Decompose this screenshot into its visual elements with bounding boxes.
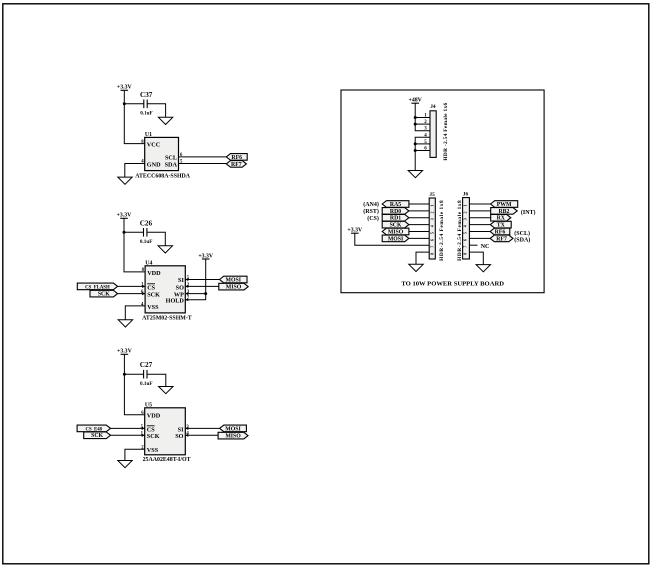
svg-text:VDD: VDD — [147, 270, 161, 277]
svg-text:RX: RX — [497, 216, 506, 222]
wire J6 pin 5 to RF6 — [469, 231, 490, 233]
wire C26 to ground — [147, 232, 165, 246]
wire J6 pin 4 to TX — [469, 224, 490, 226]
svg-text:CS: CS — [147, 284, 155, 291]
flag RA5 (J5) — [382, 201, 409, 208]
svg-text:C26: C26 — [140, 219, 153, 227]
wire J4 pin 5 stub — [415, 143, 430, 145]
wire SDA to RF7 — [179, 163, 227, 165]
flag MISO (U4) — [219, 283, 248, 290]
flag RF7 — [226, 161, 246, 168]
junction node (J4 pin 2) — [414, 123, 417, 126]
svg-text:VDD: VDD — [147, 413, 161, 420]
flag RF6 — [226, 154, 247, 161]
svg-text:SCK: SCK — [91, 433, 103, 439]
svg-text:8: 8 — [462, 253, 467, 255]
flag MOSI (U5) — [220, 425, 247, 432]
svg-text:(SCL): (SCL) — [514, 230, 530, 237]
junction node (J4 pin 1) — [414, 116, 417, 119]
wire J5 pin 3 to RD1 — [409, 217, 429, 219]
svg-text:0.1uF: 0.1uF — [140, 111, 153, 117]
svg-text:(AN4): (AN4) — [363, 201, 379, 208]
svg-text:ATECC608A-SSHDA: ATECC608A-SSHDA — [135, 174, 191, 180]
svg-text:5: 5 — [430, 232, 435, 234]
svg-text:(INT): (INT) — [521, 209, 536, 216]
svg-text:3: 3 — [462, 218, 467, 220]
wire J6 pin 2 to RB2 — [469, 210, 490, 212]
svg-text:2: 2 — [430, 212, 435, 214]
connector J4 body — [430, 111, 436, 158]
ground (C27) — [159, 387, 173, 394]
svg-text:RD1: RD1 — [390, 216, 401, 222]
wire SI to MOSI — [185, 427, 219, 429]
svg-text:1: 1 — [430, 205, 435, 207]
flag RD1 (J5) — [382, 214, 409, 221]
wire junction to C37 — [124, 103, 144, 105]
chip U4 body — [145, 266, 185, 313]
svg-text:PWM: PWM — [497, 202, 512, 208]
svg-text:8: 8 — [141, 140, 144, 145]
flag RD0 (J5) — [382, 208, 409, 215]
svg-text:MOSI: MOSI — [388, 236, 404, 242]
svg-text:SCK: SCK — [98, 292, 110, 298]
wire junction to C27 — [124, 373, 143, 375]
flag RF6 (J6) — [490, 228, 510, 235]
svg-text:SCK: SCK — [147, 292, 160, 299]
flag RF7 (J6) — [490, 235, 513, 242]
svg-text:J4: J4 — [430, 104, 436, 110]
ground (J5) — [409, 264, 423, 271]
wire J4 pin 2 stub — [415, 123, 430, 125]
wire SCK to U4 SCK — [118, 293, 146, 295]
power supply interface box — [341, 90, 544, 293]
svg-text:2: 2 — [462, 212, 467, 214]
flag CS_FLASH — [77, 283, 117, 290]
svg-text:8: 8 — [430, 253, 435, 255]
wire J4 pin 4 rail to ground — [415, 137, 430, 170]
wire J6 pin 7 NC stub — [469, 244, 477, 246]
wire J5 pin 1 to RA5 — [409, 203, 429, 205]
flag CS_E48 — [77, 425, 110, 432]
wire SCL to RF6 — [179, 156, 227, 158]
svg-text:RF6: RF6 — [231, 155, 242, 161]
capacitor C27 0.1uF — [143, 370, 145, 379]
svg-text:3: 3 — [430, 218, 435, 220]
connector J5 body — [429, 198, 435, 259]
svg-text:MISO: MISO — [388, 229, 404, 235]
svg-text:(RST): (RST) — [363, 208, 379, 215]
ground (U4 VSS) — [118, 320, 132, 327]
wire +3.3V to U4 VDD pin 8 — [124, 218, 145, 272]
wire junction to C26 — [124, 231, 144, 233]
wire U4 VSS to ground — [125, 306, 145, 320]
chip U5 body — [145, 408, 186, 455]
flag SCK (U4) — [90, 290, 118, 297]
connector J6 body — [463, 198, 470, 259]
svg-text:4: 4 — [462, 225, 467, 227]
flag TX (J6) — [490, 221, 511, 228]
svg-text:MISO: MISO — [225, 434, 241, 440]
wire WP stub — [185, 293, 205, 295]
svg-text:6: 6 — [141, 411, 144, 416]
svg-text:SO: SO — [176, 284, 184, 291]
junction node (WP tap) — [204, 292, 207, 295]
svg-text:AT25M02-SSHM-T: AT25M02-SSHM-T — [142, 315, 192, 321]
wire U5 VSS to ground — [125, 449, 145, 460]
wire +3.3V to J5 pin 7 — [355, 233, 429, 245]
svg-text:C27: C27 — [140, 361, 153, 369]
svg-text:0.1uF: 0.1uF — [140, 239, 153, 245]
ground (U5 VSS) — [118, 461, 132, 468]
svg-text:HDR-2.54 Female 1x8: HDR-2.54 Female 1x8 — [457, 200, 463, 261]
flag RB2 (J6) — [491, 208, 518, 215]
wire CS_FLASH to U4 CS — [118, 285, 146, 287]
svg-text:NC: NC — [481, 243, 490, 250]
flag MOSI (U4) — [220, 276, 248, 283]
svg-text:8: 8 — [142, 268, 145, 273]
svg-text:2: 2 — [141, 446, 144, 451]
svg-text:5: 5 — [462, 232, 467, 234]
junction node (C26 tap) — [123, 231, 126, 234]
svg-text:(CS): (CS) — [367, 215, 379, 222]
wire CS_E48 to U5 CS — [111, 427, 145, 429]
wire SCK to U5 SCK — [111, 434, 145, 436]
wire SI to MOSI — [185, 279, 219, 281]
svg-text:TX: TX — [497, 223, 506, 229]
flag SCK (U5) — [84, 432, 111, 439]
flag MISO (J5) — [382, 228, 409, 235]
svg-text:C37: C37 — [140, 91, 153, 99]
svg-text:J6: J6 — [463, 191, 469, 197]
svg-text:MISO: MISO — [226, 285, 242, 291]
wire J4 pin 6 stub — [415, 150, 430, 152]
wire J5 pin 6 to MOSI — [409, 237, 429, 239]
junction node (C27 tap) — [123, 373, 126, 376]
svg-text:HDR-2.54 Female 1x8: HDR-2.54 Female 1x8 — [439, 200, 445, 261]
svg-text:(SDA): (SDA) — [514, 237, 530, 244]
capacitor C37 0.1uF — [143, 100, 145, 109]
wire J5 pin 8 to ground — [416, 252, 429, 264]
wire +48V rail to J4 pins 1-3 — [415, 103, 430, 131]
chip U1 body — [145, 137, 179, 170]
svg-text:U4: U4 — [145, 261, 152, 267]
ground (U1 GND) — [118, 177, 132, 184]
wire SO to MISO — [185, 285, 219, 287]
flag SCK (J5) — [382, 221, 409, 228]
flag MOSI (J5) — [382, 235, 409, 242]
wire C37 to ground — [147, 104, 165, 118]
svg-text:7: 7 — [430, 246, 435, 248]
svg-text:RF6: RF6 — [495, 229, 506, 235]
capacitor C26 0.1uF — [143, 228, 145, 237]
svg-text:MOSI: MOSI — [225, 426, 241, 432]
svg-text:VCC: VCC — [147, 141, 160, 148]
flag PWM (J6) — [491, 201, 518, 208]
svg-text:SCK: SCK — [390, 223, 402, 229]
svg-text:RF7: RF7 — [231, 162, 242, 168]
svg-text:GND: GND — [147, 161, 161, 168]
junction node (C37 tap) — [123, 102, 126, 105]
wire J6 pin 8 to ground — [469, 252, 483, 265]
svg-text:HDR -2.54 Female 1x6: HDR -2.54 Female 1x6 — [443, 102, 449, 160]
svg-text:7: 7 — [462, 246, 467, 248]
ground (C37) — [158, 117, 172, 124]
wire J6 pin 3 to RX — [469, 217, 490, 219]
flag MISO (U5) — [218, 432, 248, 439]
svg-text:HOLD: HOLD — [166, 298, 185, 305]
svg-text:RA5: RA5 — [390, 202, 401, 208]
svg-text:0.1uF: 0.1uF — [140, 381, 153, 387]
svg-text:CS_FLASH: CS_FLASH — [85, 285, 110, 290]
svg-text:25AA02E48T-I/OT: 25AA02E48T-I/OT — [143, 457, 191, 463]
junction node (J4 pin 5) — [414, 142, 417, 145]
wire J5 pin 4 to SCK — [409, 224, 429, 226]
junction node (J4 pin 6) — [414, 149, 417, 152]
svg-text:VSS: VSS — [147, 447, 159, 454]
wire J5 pin 2 to RD0 — [409, 210, 429, 212]
wire +3.3V to U1 VCC pin 8 — [124, 90, 144, 143]
wire U1 GND to ground — [125, 164, 145, 178]
svg-text:RF7: RF7 — [496, 236, 507, 242]
flag RX (J6) — [491, 214, 511, 221]
svg-text:6: 6 — [462, 239, 467, 241]
ground (C26) — [158, 246, 172, 253]
svg-text:SCK: SCK — [147, 433, 160, 440]
wire J5 pin 5 to MISO — [409, 231, 429, 233]
wire SO to MISO — [185, 434, 218, 436]
ground (J4) — [408, 171, 422, 178]
wire J6 pin 1 to PWM — [469, 203, 490, 205]
svg-text:SDA: SDA — [165, 161, 178, 168]
svg-text:J5: J5 — [429, 192, 435, 198]
wire J6 pin 6 to RF7 — [469, 237, 490, 239]
svg-text:4: 4 — [430, 225, 435, 227]
wire +3.3V to U5 VDD pin 6 — [124, 354, 144, 414]
svg-text:1: 1 — [462, 205, 467, 207]
svg-text:4: 4 — [141, 302, 144, 307]
svg-text:VSS: VSS — [147, 304, 159, 311]
wire C27 to ground — [147, 374, 166, 386]
wire +3.3V to WP and HOLD — [185, 259, 205, 300]
svg-text:SO: SO — [175, 433, 183, 440]
svg-text:U5: U5 — [145, 403, 152, 409]
svg-text:MOSI: MOSI — [226, 277, 242, 283]
svg-text:6: 6 — [430, 239, 435, 241]
svg-text:TO 10W POWER SUPPLY BOARD: TO 10W POWER SUPPLY BOARD — [401, 281, 504, 288]
wire J4 pin 1 stub — [415, 117, 430, 119]
ground (J6) — [476, 265, 490, 272]
svg-text:U1: U1 — [145, 132, 152, 138]
svg-text:SI: SI — [178, 277, 184, 284]
